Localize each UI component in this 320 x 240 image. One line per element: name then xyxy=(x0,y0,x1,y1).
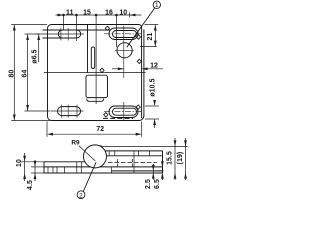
ticks right top row xyxy=(108,151,110,156)
slot TR centerline dashed xyxy=(104,33,141,35)
bar outline xyxy=(44,161,85,163)
slot bottom-right outer xyxy=(109,106,138,118)
bracket arm left edge xyxy=(87,25,89,73)
dim 12 xyxy=(112,68,163,70)
right slots vertical centerline xyxy=(123,26,125,79)
svg-text:(19): (19) xyxy=(177,152,184,165)
svg-text:ø6.5: ø6.5 xyxy=(32,49,39,63)
svg-text:ø10.5: ø10.5 xyxy=(150,78,157,96)
svg-text:6.5: 6.5 xyxy=(154,179,161,189)
circle boss xyxy=(84,145,107,168)
slot TL vertical ticks xyxy=(60,28,62,41)
label dia 10.5 xyxy=(145,100,159,128)
spot weld diamond left of slot BR xyxy=(104,113,108,117)
svg-text:80: 80 xyxy=(9,70,16,78)
dashed hidden xyxy=(108,161,157,163)
right portion top xyxy=(105,150,162,152)
dim 10 left xyxy=(21,153,45,181)
back plate outline xyxy=(48,29,144,121)
circle hole xyxy=(117,43,132,58)
slot BL vertical ticks xyxy=(60,105,62,118)
chain dots xyxy=(62,14,65,17)
spot weld diamond right of slot TR xyxy=(136,35,140,39)
back plate top edge left xyxy=(49,29,111,31)
spot weld diamond top-left of slot TR xyxy=(105,26,109,30)
svg-text:10: 10 xyxy=(119,9,127,16)
svg-text:2: 2 xyxy=(79,192,83,199)
front plate bottom edge xyxy=(103,117,133,119)
spot weld diamond right of slot BR xyxy=(136,105,140,109)
back plate notch bottom xyxy=(87,99,104,102)
spot weld diamond mid-right xyxy=(137,59,141,63)
right arrow xyxy=(130,14,136,17)
dim 72 xyxy=(47,122,142,137)
slot top-right inner xyxy=(113,31,137,38)
slot TL centerline xyxy=(36,33,84,35)
svg-text:4.5: 4.5 xyxy=(27,180,34,190)
slot top-right outer xyxy=(109,28,138,40)
dim 4.5 xyxy=(31,160,44,181)
slot BR centerline dashed xyxy=(104,111,141,113)
svg-text:R9: R9 xyxy=(71,140,80,147)
dim 21 xyxy=(140,25,158,47)
svg-text:11: 11 xyxy=(66,9,74,16)
mid horizontal centerline xyxy=(44,72,146,74)
slot bottom-right inner xyxy=(113,108,137,115)
svg-text:2.5: 2.5 xyxy=(145,179,152,189)
balloon 1 xyxy=(127,1,161,47)
notch xyxy=(86,75,108,97)
svg-text:21: 21 xyxy=(147,33,154,41)
svg-text:15: 15 xyxy=(83,9,91,16)
slot bottom-left xyxy=(58,107,81,116)
slot top-left (open type) xyxy=(43,30,81,38)
svg-text:1: 1 xyxy=(155,2,159,9)
centerlines xyxy=(36,26,141,122)
chain labels xyxy=(66,9,127,16)
front plate outline xyxy=(48,25,142,119)
slot BL centerline xyxy=(51,110,84,112)
svg-text:72: 72 xyxy=(96,126,104,133)
right side dims: 2.5 6.5 15.5 (19) xyxy=(99,138,188,180)
small vertical ticks left xyxy=(47,167,49,173)
dim 64 xyxy=(25,34,51,111)
svg-text:10: 10 xyxy=(16,159,23,167)
balloon 2 xyxy=(77,162,96,198)
top chain dim line xyxy=(56,14,142,16)
left arrow xyxy=(58,14,64,17)
label dia 6.5 xyxy=(38,35,40,62)
right verticals xyxy=(133,151,135,173)
dim 80 xyxy=(11,25,50,121)
svg-text:15.5: 15.5 xyxy=(167,151,174,165)
svg-text:12: 12 xyxy=(150,62,158,69)
extension lines xyxy=(63,16,65,30)
svg-text:64: 64 xyxy=(22,70,29,78)
internal lines xyxy=(44,166,90,168)
slit xyxy=(91,47,94,69)
spot weld diamond mid-left xyxy=(100,68,104,72)
circle horizontal centerline + 21 ext xyxy=(115,49,134,51)
svg-text:16: 16 xyxy=(105,9,113,16)
